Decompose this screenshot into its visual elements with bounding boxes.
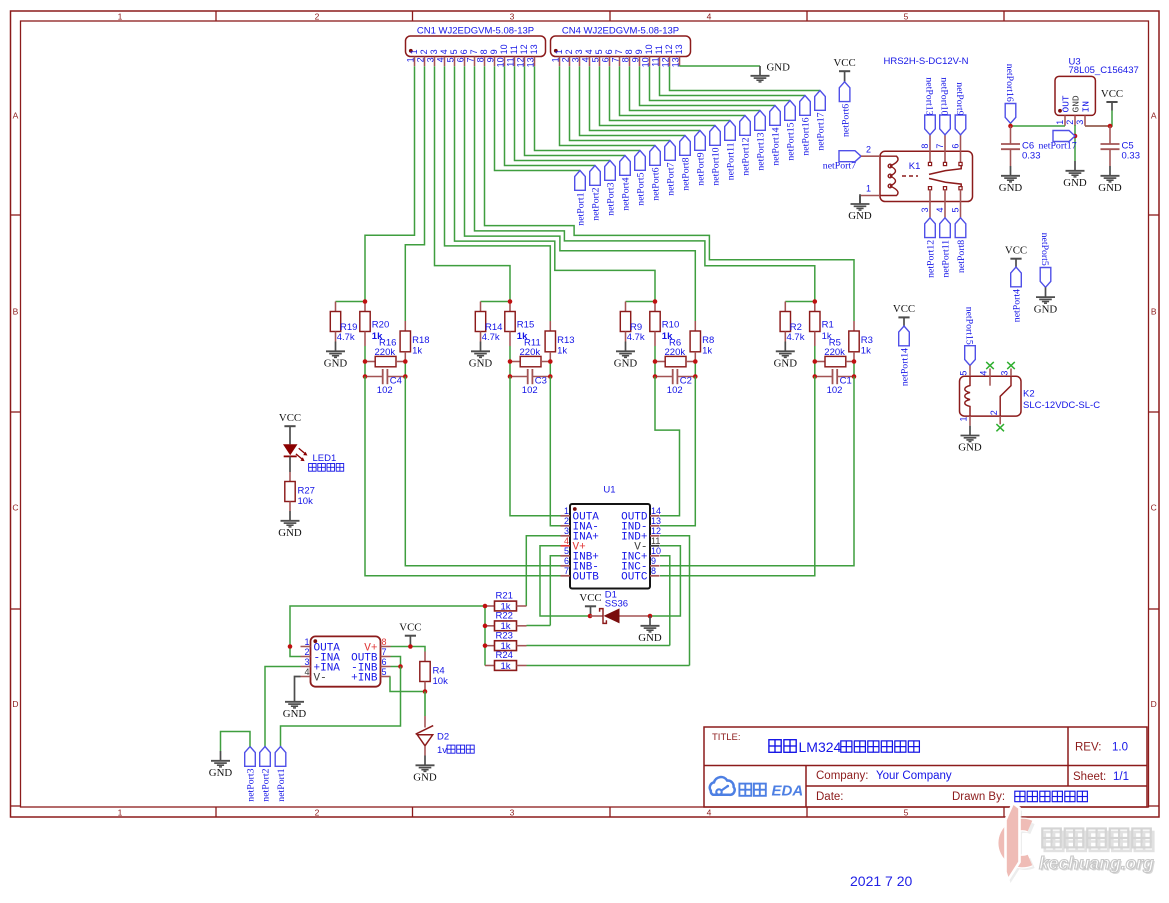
net flag netPort5 xyxy=(635,151,647,206)
resistor R5 220k xyxy=(815,338,854,367)
wire cell top R10 xyxy=(626,301,656,303)
svg-text:netPort4: netPort4 xyxy=(1012,289,1023,322)
resistor R4 10k xyxy=(420,652,448,692)
junction xyxy=(363,359,368,364)
svg-text:GND: GND xyxy=(413,772,437,784)
wire CN1 pin2 to cell1 right xyxy=(405,66,424,321)
resistor R19 4.7k xyxy=(330,302,357,344)
LCEDA logo xyxy=(710,777,803,799)
svg-text:Your Company: Your Company xyxy=(876,770,952,782)
svg-text:1: 1 xyxy=(409,49,419,54)
wire K1 pin3 xyxy=(929,202,931,218)
svg-text:4: 4 xyxy=(581,57,591,62)
wire LED1 to R27 xyxy=(289,456,291,472)
wire CN1 pin5 to cell3 left xyxy=(455,66,656,301)
svg-text:1k: 1k xyxy=(557,345,567,356)
svg-text:VCC: VCC xyxy=(1005,245,1027,257)
wire cell3 left to U1 pin14 xyxy=(655,377,680,516)
svg-text:GND: GND xyxy=(209,767,233,779)
net flag netPort9 xyxy=(695,131,707,186)
svg-text:6: 6 xyxy=(382,657,387,667)
wire cell2 right to U1 pin2 xyxy=(550,377,560,526)
svg-text:A: A xyxy=(13,111,19,121)
junction xyxy=(693,374,698,379)
svg-text:netPort9: netPort9 xyxy=(954,82,965,115)
svg-text:3: 3 xyxy=(571,57,581,62)
net flag netPort8 xyxy=(680,136,692,191)
wire netPort2 to opamp +INA xyxy=(265,667,301,747)
ground below D2 xyxy=(413,756,437,784)
wire to net netPort6 xyxy=(560,66,656,145)
net flag netPort5 xyxy=(1039,233,1051,288)
svg-text:5: 5 xyxy=(564,546,569,556)
capacitor C6 0.33 xyxy=(1001,126,1041,166)
svg-text:1: 1 xyxy=(959,416,969,421)
svg-text:7: 7 xyxy=(614,49,624,54)
svg-text:netPort17: netPort17 xyxy=(816,112,827,150)
svg-text:12: 12 xyxy=(664,44,674,54)
wire to net netPort5 xyxy=(535,66,641,150)
svg-text:1: 1 xyxy=(118,807,123,817)
svg-text:2: 2 xyxy=(416,57,426,62)
svg-text:5: 5 xyxy=(591,57,601,62)
svg-text:HRS2H-S-DC12V-N: HRS2H-S-DC12V-N xyxy=(884,56,969,67)
wire opamp +INB to R4 bottom xyxy=(390,677,425,692)
svg-text:1k: 1k xyxy=(702,345,712,356)
svg-text:U1: U1 xyxy=(603,485,615,496)
junction xyxy=(693,359,698,364)
svg-text:netPort5: netPort5 xyxy=(1039,233,1050,266)
resistor R15 1k xyxy=(505,302,534,347)
net flag netPort1 xyxy=(575,171,587,226)
resistor R18 1k xyxy=(400,321,429,362)
svg-text:netPort13: netPort13 xyxy=(756,132,767,170)
diode D1 SS36 schottky xyxy=(590,589,650,623)
wire CN1 pin8 to cell4 right xyxy=(485,66,855,321)
wire U3 GND pin to ground xyxy=(1074,125,1076,161)
svg-text:netPort9: netPort9 xyxy=(696,152,707,185)
junction xyxy=(403,359,408,364)
svg-text:1: 1 xyxy=(554,49,564,54)
resistor R9 4.7k xyxy=(620,302,645,344)
voltage regulator U3 78L05_C156437 xyxy=(1055,56,1139,126)
svg-text:netPort7: netPort7 xyxy=(823,161,856,172)
svg-text:2: 2 xyxy=(315,11,320,21)
wire to net netPort8 xyxy=(580,66,686,135)
wire to net netPort7 xyxy=(570,66,671,140)
svg-text:9: 9 xyxy=(489,49,499,54)
svg-text:2: 2 xyxy=(564,49,574,54)
wire VCC to U3 IN xyxy=(1085,111,1112,127)
svg-text:11: 11 xyxy=(651,536,660,546)
wire U1 pin11 V- to D1 node xyxy=(650,546,680,616)
svg-text:netPort6: netPort6 xyxy=(651,167,662,200)
svg-text:SS36: SS36 xyxy=(605,599,628,610)
svg-text:3: 3 xyxy=(426,57,436,62)
svg-text:VCC: VCC xyxy=(1101,88,1123,100)
svg-text:7: 7 xyxy=(469,49,479,54)
svg-text:3: 3 xyxy=(574,49,584,54)
svg-text:5: 5 xyxy=(959,371,969,376)
svg-text:VCC: VCC xyxy=(833,57,855,69)
relay K1 xyxy=(880,151,973,201)
wire netPort3 to ground xyxy=(221,732,251,752)
wire to net netPort4 xyxy=(525,66,626,155)
resistor R11 220k xyxy=(510,338,550,367)
resistor R10 1k xyxy=(650,302,679,347)
wire node R6 left xyxy=(654,362,656,377)
svg-text:2: 2 xyxy=(419,49,429,54)
zener diode D2 xyxy=(416,692,450,756)
svg-text:K2: K2 xyxy=(1023,388,1035,399)
watermark kechuang.org text xyxy=(1039,853,1156,875)
wire U1 pin12 to R24 xyxy=(660,536,690,666)
wire CN1 pin7 to cell4 left xyxy=(475,66,815,301)
capacitor C5 0.33 xyxy=(1101,126,1141,166)
svg-text:2: 2 xyxy=(564,516,569,526)
power flag VCC above netPort4 xyxy=(1005,245,1027,268)
net flag netPort16 xyxy=(800,96,812,156)
svg-text:6: 6 xyxy=(564,556,569,566)
svg-text:102: 102 xyxy=(377,385,393,396)
op-amp U2 LM358 xyxy=(301,636,391,686)
svg-text:8: 8 xyxy=(479,49,489,54)
svg-text:Date:: Date: xyxy=(816,791,844,803)
net flag netPort10 xyxy=(710,126,722,186)
resistor R22 1k xyxy=(485,611,527,633)
wire cell3 right to U1 pin13 xyxy=(660,377,695,526)
wire K1 pin5 xyxy=(960,202,962,218)
net flag netPort11 xyxy=(940,218,952,278)
wire R15 to node xyxy=(509,346,511,362)
svg-text:2: 2 xyxy=(315,807,320,817)
resistor R20 1k xyxy=(360,302,389,347)
svg-text:C: C xyxy=(12,503,18,513)
junction xyxy=(288,644,293,649)
ground at K1 pin1 xyxy=(848,194,872,222)
junction xyxy=(648,614,653,619)
wire K1 pin1 to ground xyxy=(860,195,880,197)
wire to net netPort15 xyxy=(650,66,791,100)
no connect cross xyxy=(986,362,994,369)
net flag netPort17 xyxy=(1039,131,1077,152)
svg-text:netPort13: netPort13 xyxy=(923,77,934,115)
svg-text:3: 3 xyxy=(510,11,515,21)
svg-text:VCC: VCC xyxy=(399,622,421,634)
svg-text:REV:: REV: xyxy=(1075,742,1101,754)
svg-text:9: 9 xyxy=(486,57,496,62)
svg-text:2021 7 20: 2021 7 20 xyxy=(850,873,912,889)
svg-text:R15: R15 xyxy=(517,319,534,330)
resistor R6 220k xyxy=(655,338,695,367)
svg-text:D2: D2 xyxy=(437,732,449,743)
resistor R24 1k xyxy=(485,650,527,672)
svg-text:5: 5 xyxy=(951,207,961,212)
wire R1 to node xyxy=(814,346,816,362)
svg-text:netPort14: netPort14 xyxy=(900,348,911,386)
net flag netPort13 xyxy=(923,77,935,134)
wire cell1 left to U1 pin7 xyxy=(365,377,561,576)
wire U1 pin10 to R23 xyxy=(660,556,670,646)
connector CN4 WJ2EDGVM-5.08-13P xyxy=(551,26,691,68)
svg-text:4: 4 xyxy=(564,536,569,546)
svg-text:netPort6: netPort6 xyxy=(840,104,851,137)
junction xyxy=(398,664,403,669)
wire node R5 right xyxy=(853,362,855,377)
net flag netPort7 xyxy=(823,151,861,172)
power flag VCC at opamp V+ xyxy=(399,622,421,647)
svg-text:netPort12: netPort12 xyxy=(741,137,752,175)
svg-text:netPort7: netPort7 xyxy=(666,162,677,195)
svg-text:6: 6 xyxy=(459,49,469,54)
svg-text:R23: R23 xyxy=(496,630,513,641)
resistor R13 1k xyxy=(545,321,574,362)
net flag netPort2 bottom xyxy=(260,747,272,802)
svg-text:GND: GND xyxy=(774,358,798,370)
junction xyxy=(408,644,413,649)
svg-text:R27: R27 xyxy=(298,485,315,496)
svg-text:102: 102 xyxy=(827,385,843,396)
svg-text:4.7k: 4.7k xyxy=(337,332,355,343)
wire cell1 right to U1 pin6 xyxy=(405,377,560,566)
wire K1 pin7 xyxy=(944,135,946,152)
svg-text:1: 1 xyxy=(304,637,309,647)
svg-text:12: 12 xyxy=(661,57,671,67)
resistor R3 1k xyxy=(849,321,873,362)
svg-text:K1: K1 xyxy=(909,161,921,172)
junction xyxy=(483,643,488,648)
svg-text:1: 1 xyxy=(1055,120,1065,125)
svg-text:R14: R14 xyxy=(485,322,502,333)
net flag netPort16 xyxy=(1004,64,1016,124)
svg-text:R8: R8 xyxy=(702,335,714,346)
junction xyxy=(403,374,408,379)
resistor R27 10k xyxy=(285,472,315,511)
svg-text:GND: GND xyxy=(278,527,302,539)
svg-text:R20: R20 xyxy=(372,319,389,330)
svg-text:VCC: VCC xyxy=(579,592,601,604)
drawn by name xyxy=(1015,791,1088,802)
svg-text:1: 1 xyxy=(866,184,871,194)
svg-text:netPort4: netPort4 xyxy=(621,177,632,210)
svg-text:1k: 1k xyxy=(412,345,422,356)
resistor R8 1k xyxy=(690,321,714,362)
svg-text:14: 14 xyxy=(651,506,661,516)
svg-text:netPort5: netPort5 xyxy=(636,172,647,205)
power flag VCC above netPort14 xyxy=(893,303,915,326)
wire node R11 right xyxy=(549,362,551,377)
net flag netPort3 xyxy=(605,161,617,216)
svg-text:netPort11: netPort11 xyxy=(726,142,737,180)
wire to net netPort16 xyxy=(660,66,806,95)
wire R21 node to opamp OUTA xyxy=(290,606,485,647)
svg-text:B: B xyxy=(13,307,19,317)
ground at netPort3 xyxy=(209,751,233,779)
svg-text:5: 5 xyxy=(594,49,604,54)
title block xyxy=(704,727,1147,807)
svg-text:1: 1 xyxy=(551,57,561,62)
wire node R6 right xyxy=(694,362,696,377)
svg-text:13: 13 xyxy=(651,516,661,526)
svg-text:R1: R1 xyxy=(822,319,834,330)
svg-text:B: B xyxy=(1151,307,1157,317)
svg-text:kechuang.org: kechuang.org xyxy=(1039,853,1154,873)
watermark kechuang logo xyxy=(1004,803,1032,883)
svg-text:13: 13 xyxy=(674,44,684,54)
title block labels xyxy=(712,732,1129,803)
wire cell2 left to U1 pin1 xyxy=(510,377,561,516)
wire R23 to U1 pin10 xyxy=(527,645,670,647)
svg-text:10: 10 xyxy=(499,44,509,54)
wire CN1 pin1 to cell1 left xyxy=(365,66,415,301)
svg-text:GND: GND xyxy=(999,182,1023,194)
net flag netPort4 xyxy=(1011,267,1023,322)
svg-text:netPort1: netPort1 xyxy=(276,768,287,801)
wire opamp OUTA to -INA feedback xyxy=(290,647,301,657)
junction xyxy=(1073,134,1078,139)
svg-text:netPort1: netPort1 xyxy=(576,192,587,225)
svg-text:netPort10: netPort10 xyxy=(711,147,722,185)
svg-text:R22: R22 xyxy=(496,611,513,622)
svg-text:8: 8 xyxy=(651,566,656,576)
svg-text:4: 4 xyxy=(979,371,989,376)
wire K1 pin8 xyxy=(929,135,931,152)
junction xyxy=(852,374,857,379)
svg-text:GND: GND xyxy=(1063,177,1087,189)
svg-text:1k: 1k xyxy=(861,345,871,356)
svg-text:4.7k: 4.7k xyxy=(482,332,500,343)
ground below R27 xyxy=(278,511,302,539)
svg-text:LED1: LED1 xyxy=(313,453,337,464)
svg-text:7: 7 xyxy=(564,566,569,576)
power flag VCC above netPort6 xyxy=(833,57,855,82)
svg-text:netPort16: netPort16 xyxy=(1004,64,1015,102)
svg-text:8: 8 xyxy=(920,144,930,149)
svg-text:102: 102 xyxy=(667,385,683,396)
svg-text:A: A xyxy=(1151,111,1157,121)
svg-text:5: 5 xyxy=(382,667,387,677)
resistor R23 1k xyxy=(485,630,527,652)
wire R24 to U1 pin12 xyxy=(527,665,690,667)
svg-text:6: 6 xyxy=(951,144,961,149)
resistor R2 4.7k xyxy=(780,302,805,344)
wire K1 pin6 xyxy=(960,135,962,152)
power flag VCC for LED1 xyxy=(279,412,301,426)
op-amp U1 LM324 xyxy=(561,485,662,589)
capacitor C2 102 xyxy=(655,369,695,396)
svg-text:D: D xyxy=(1151,699,1157,709)
ground below C6 xyxy=(999,166,1023,194)
junction xyxy=(508,359,513,364)
svg-text:3: 3 xyxy=(1000,371,1010,376)
net flag netPort1 bottom xyxy=(275,747,287,802)
svg-text:6: 6 xyxy=(601,57,611,62)
svg-text:1/1: 1/1 xyxy=(1113,771,1129,783)
junction xyxy=(813,299,818,304)
ground below R14 xyxy=(469,342,493,370)
svg-text:2: 2 xyxy=(304,647,309,657)
wire node R11 left xyxy=(509,362,511,377)
wire to net netPort12 xyxy=(620,66,746,115)
svg-text:8: 8 xyxy=(476,57,486,62)
svg-text:1k: 1k xyxy=(500,661,510,672)
connector CN1 WJ2EDGVM-5.08-13P xyxy=(406,26,546,68)
svg-text:13: 13 xyxy=(526,57,536,67)
svg-text:netPort15: netPort15 xyxy=(963,307,974,345)
watermark kechuang yanjiuyuan text xyxy=(1045,832,1154,851)
junction xyxy=(363,299,368,304)
wire node R5 left xyxy=(814,362,816,377)
wire U1 pin5 to R22 xyxy=(550,556,560,626)
resistor R1 1k xyxy=(810,302,834,347)
svg-text:10k: 10k xyxy=(433,676,449,687)
wire node R16 right xyxy=(404,362,406,377)
wire opamp V+ to R4 xyxy=(391,647,426,652)
net flag netPort7 xyxy=(665,141,677,196)
svg-text:SLC-12VDC-SL-C: SLC-12VDC-SL-C xyxy=(1023,400,1100,411)
junction xyxy=(1008,124,1013,129)
svg-text:V-: V- xyxy=(314,672,327,684)
ground below C5 xyxy=(1098,166,1122,194)
ground at CN4 pin13 xyxy=(751,61,791,82)
svg-text:R10: R10 xyxy=(662,319,679,330)
svg-text:9: 9 xyxy=(651,556,656,566)
svg-text:netPort8: netPort8 xyxy=(681,157,692,190)
net flag netPort3 bottom xyxy=(245,747,257,802)
wire to net netPort11 xyxy=(610,66,731,120)
svg-text:12: 12 xyxy=(651,526,661,536)
svg-text:GND: GND xyxy=(638,632,662,644)
wire opamp OUTB to -INB xyxy=(391,657,401,667)
junction xyxy=(508,374,513,379)
ground below K2 xyxy=(958,426,982,454)
svg-text:R24: R24 xyxy=(496,650,513,661)
wire CN1 pin3 to cell2 left xyxy=(435,66,511,301)
svg-text:7: 7 xyxy=(935,144,945,149)
svg-text:netPort16: netPort16 xyxy=(801,117,812,155)
svg-text:Drawn By:: Drawn By: xyxy=(952,791,1005,803)
svg-text:12: 12 xyxy=(519,44,529,54)
net flag netPort8 xyxy=(955,218,967,273)
resistor R14 4.7k xyxy=(475,302,502,344)
svg-text:2: 2 xyxy=(866,144,871,154)
svg-text:GND: GND xyxy=(324,358,348,370)
wire to net netPort17 xyxy=(670,66,821,90)
svg-text:4: 4 xyxy=(584,49,594,54)
svg-text:VCC: VCC xyxy=(893,303,915,315)
net flag netPort14 xyxy=(770,106,782,166)
svg-text:netPort2: netPort2 xyxy=(591,187,602,220)
svg-text:R19: R19 xyxy=(340,322,357,333)
capacitor C3 102 xyxy=(510,369,550,396)
svg-text:12: 12 xyxy=(516,57,526,67)
svg-text:13: 13 xyxy=(529,44,539,54)
svg-text:11: 11 xyxy=(506,57,516,66)
svg-text:1v: 1v xyxy=(437,745,447,756)
no connect cross xyxy=(1007,362,1015,369)
svg-text:7: 7 xyxy=(611,57,621,62)
svg-text:R9: R9 xyxy=(630,322,642,333)
wire node R16 left xyxy=(364,362,366,377)
wire cell top R15 xyxy=(481,301,511,303)
svg-text:1: 1 xyxy=(564,506,569,516)
ground below netPort5 xyxy=(1034,287,1058,315)
net flag netPort6 right xyxy=(839,82,851,137)
net flag netPort12 xyxy=(740,116,752,176)
wire to net netPort10 xyxy=(600,66,716,125)
svg-text:netPort15: netPort15 xyxy=(786,122,797,160)
svg-text:8: 8 xyxy=(621,57,631,62)
